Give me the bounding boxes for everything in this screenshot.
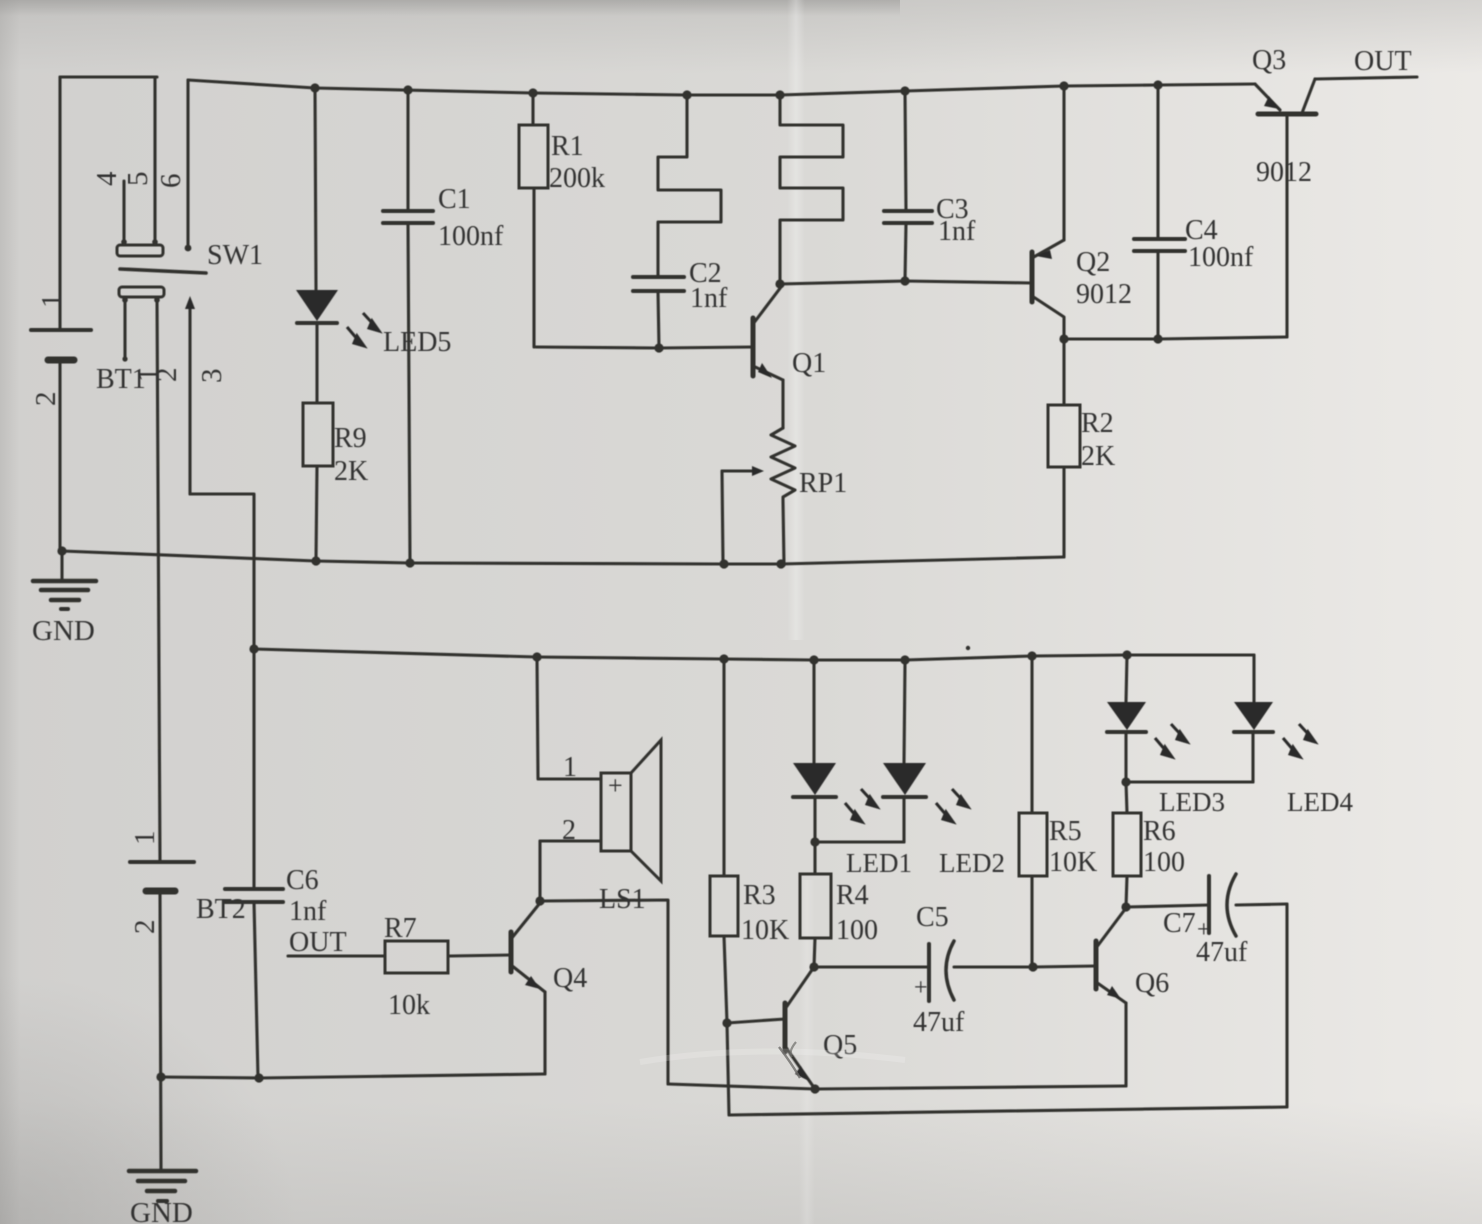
svg-text:9012: 9012 (1256, 157, 1312, 188)
svg-text:47uf: 47uf (913, 1007, 965, 1038)
svg-text:1nf: 1nf (690, 283, 728, 314)
svg-text:GND: GND (32, 615, 95, 647)
svg-text:200k: 200k (549, 163, 605, 194)
svg-text:C5: C5 (916, 902, 949, 933)
svg-text:1: 1 (129, 831, 161, 846)
svg-text:9012: 9012 (1076, 279, 1132, 310)
svg-text:GND: GND (130, 1197, 193, 1224)
svg-text:2K: 2K (334, 456, 368, 487)
svg-text:10K: 10K (1049, 847, 1097, 878)
svg-text:Q2: Q2 (1076, 247, 1110, 278)
svg-text:R2: R2 (1081, 408, 1114, 439)
svg-text:1nf: 1nf (938, 216, 976, 247)
svg-text:10K: 10K (741, 915, 789, 946)
svg-text:RP1: RP1 (799, 468, 847, 499)
svg-text:1: 1 (36, 294, 68, 309)
svg-text:R3: R3 (743, 880, 776, 911)
svg-text:5: 5 (122, 172, 154, 187)
svg-text:100nf: 100nf (1188, 242, 1254, 273)
svg-text:2: 2 (151, 368, 183, 383)
svg-text:100: 100 (836, 915, 878, 946)
svg-text:Q1: Q1 (792, 348, 826, 379)
svg-text:Q6: Q6 (1135, 968, 1169, 999)
svg-text:+: + (608, 771, 623, 800)
svg-text:1nf: 1nf (289, 896, 327, 927)
svg-text:R5: R5 (1049, 816, 1082, 847)
svg-text:2K: 2K (1081, 441, 1115, 472)
svg-text:1: 1 (563, 752, 577, 783)
svg-text:LED2: LED2 (939, 848, 1005, 878)
svg-text:R1: R1 (551, 131, 584, 162)
svg-text:2: 2 (562, 815, 576, 846)
svg-text:R6: R6 (1143, 816, 1176, 847)
svg-text:2: 2 (30, 392, 62, 407)
svg-text:100nf: 100nf (438, 221, 504, 252)
svg-text:R4: R4 (836, 880, 869, 911)
svg-text:LS1: LS1 (599, 884, 646, 915)
svg-text:BT2: BT2 (196, 894, 246, 925)
svg-text:SW1: SW1 (207, 240, 263, 271)
svg-text:LED5: LED5 (383, 327, 451, 358)
svg-text:R9: R9 (334, 423, 367, 454)
svg-text:R7: R7 (384, 913, 417, 944)
svg-text:+: + (914, 975, 928, 1001)
svg-text:10k: 10k (388, 990, 430, 1021)
svg-text:OUT: OUT (289, 927, 347, 958)
svg-text:C1: C1 (438, 184, 471, 215)
svg-text:OUT: OUT (1354, 46, 1412, 77)
svg-text:Q3: Q3 (1252, 45, 1286, 76)
svg-text:3: 3 (196, 369, 228, 384)
svg-text:Q4: Q4 (553, 963, 587, 994)
svg-text:LED4: LED4 (1287, 787, 1353, 817)
svg-text:LED1: LED1 (846, 848, 912, 878)
svg-text:C7: C7 (1163, 908, 1196, 939)
svg-text:4: 4 (91, 171, 123, 186)
svg-text:2: 2 (129, 920, 161, 935)
svg-text:100: 100 (1143, 847, 1185, 878)
svg-text:6: 6 (155, 174, 187, 189)
svg-text:47uf: 47uf (1196, 937, 1248, 968)
svg-text:LED3: LED3 (1159, 787, 1225, 817)
svg-text:C6: C6 (286, 865, 319, 896)
